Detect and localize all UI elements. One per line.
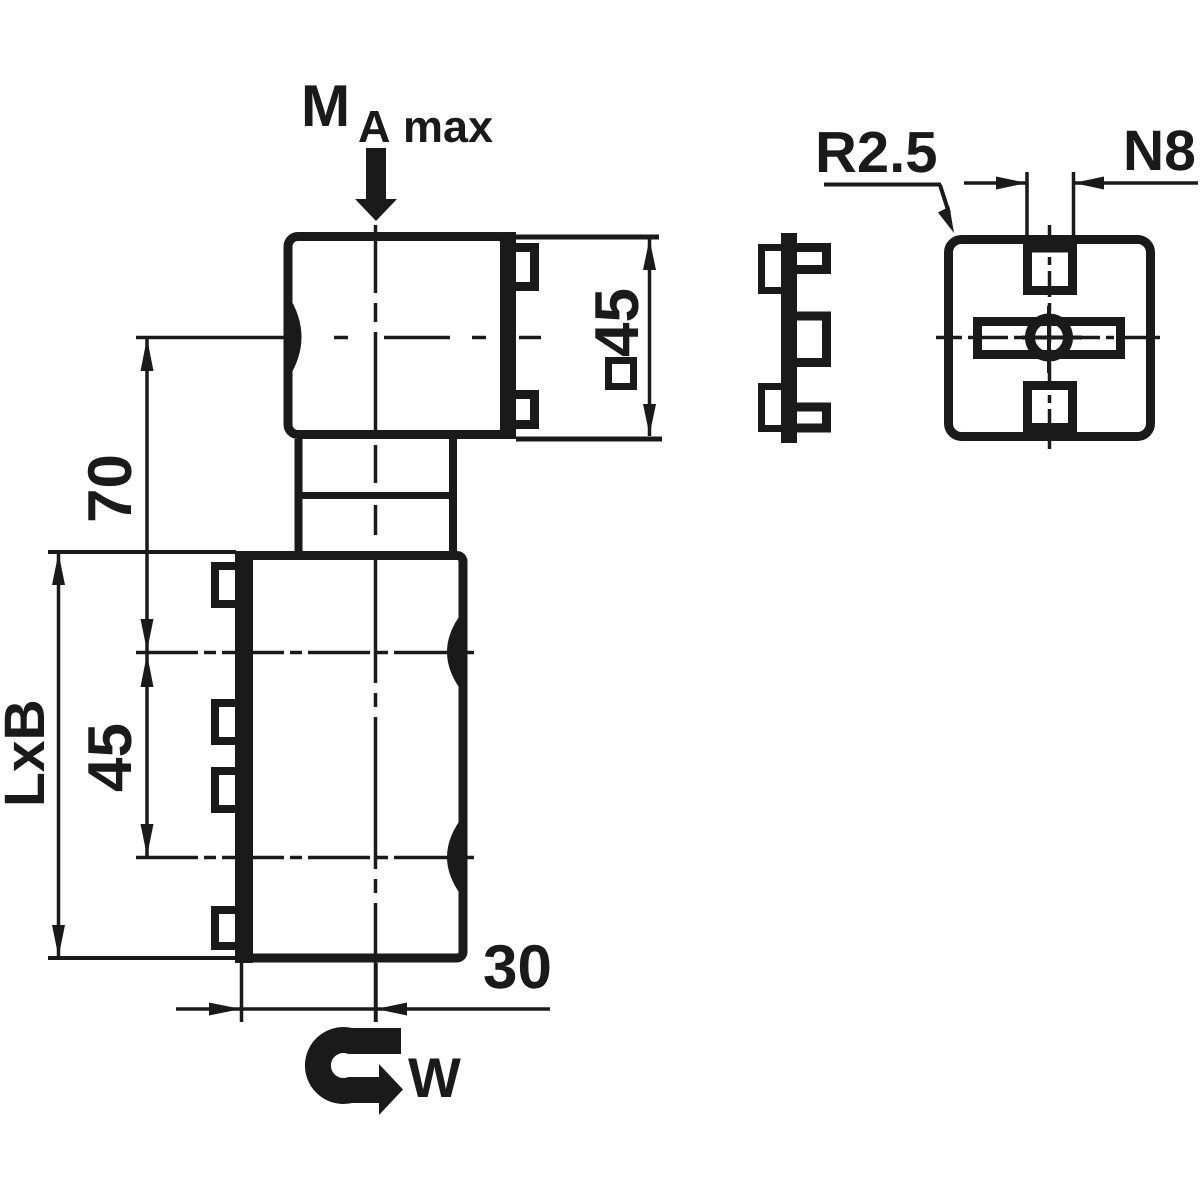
lower clamp tab 2 bbox=[215, 703, 235, 741]
arrow 70 bottom bbox=[141, 619, 154, 651]
arrow square45 bottom bbox=[643, 404, 656, 435]
lower body clamp bar bbox=[235, 551, 253, 963]
dimension N8 line left bbox=[964, 181, 1027, 185]
dimension LxB extension bottom bbox=[48, 956, 236, 960]
lower clamp tab 4 bbox=[215, 910, 235, 946]
upper body outline bbox=[288, 237, 508, 435]
arrow N8 left bbox=[996, 177, 1027, 190]
label M A max bbox=[305, 85, 493, 142]
R2.5 leader arrowhead bbox=[938, 207, 954, 234]
upper body boss arc bbox=[288, 295, 302, 379]
dim text 45 square bbox=[595, 290, 638, 356]
arrow LxB top bbox=[52, 553, 65, 585]
dim text 70 bbox=[88, 457, 132, 521]
vertical centerline main view bbox=[374, 225, 378, 1022]
arrow 70 top bbox=[141, 338, 154, 371]
dim text 45 bbox=[88, 725, 131, 791]
dimension N8 line right bbox=[1074, 181, 1199, 185]
dim text LxB bbox=[5, 702, 44, 803]
dimension square45 extension bottom bbox=[516, 437, 662, 442]
arrow N8 right bbox=[1074, 177, 1105, 190]
label W bbox=[408, 1059, 461, 1098]
front view body bbox=[949, 240, 1151, 437]
side profile square bottom bbox=[762, 387, 786, 429]
front view vertical centerline bbox=[1048, 225, 1052, 455]
square symbol bbox=[609, 361, 634, 387]
dimension N8 extension left bbox=[1025, 172, 1029, 240]
arrow square45 top bbox=[643, 239, 656, 270]
lower body horizontal centerline top bbox=[136, 651, 474, 655]
horizontal centerline upper body bbox=[136, 336, 541, 340]
dimension 30 extension right bbox=[374, 963, 378, 1022]
side profile tab bottom bbox=[793, 407, 827, 428]
arrow 45 top bbox=[141, 654, 154, 687]
front view slot top square bbox=[1028, 248, 1073, 291]
front view slot bottom square bbox=[1028, 386, 1073, 428]
lower body bore arc top bbox=[447, 610, 464, 694]
upper clamp tab top bbox=[516, 248, 535, 287]
side profile square top bbox=[762, 248, 786, 291]
side profile tab middle bbox=[793, 316, 827, 363]
dimension line square45 bbox=[648, 238, 652, 436]
dimension LxB extension top bbox=[48, 550, 236, 554]
lower body bore arc bottom bbox=[447, 815, 464, 899]
dimension line 30 bbox=[176, 1007, 550, 1011]
lower clamp tab 1 bbox=[215, 566, 235, 604]
R2.5 leader underline bbox=[824, 183, 941, 187]
neck bbox=[299, 439, 454, 555]
front view horizontal centerline bbox=[936, 336, 1166, 340]
side profile tab top bbox=[793, 248, 827, 270]
arrow 45 bottom bbox=[141, 824, 154, 856]
dimension line 70/45 bbox=[145, 338, 149, 858]
front view bore crosshair bbox=[1022, 306, 1082, 373]
upper body clamp bar bbox=[500, 232, 516, 439]
front view center bore circle bbox=[1030, 319, 1068, 357]
upper clamp tab bottom bbox=[516, 395, 535, 425]
rotation arrow W bbox=[318, 1040, 403, 1115]
side profile clamp bar bbox=[781, 233, 797, 443]
dimension line LxB bbox=[57, 552, 61, 958]
dimension 30 extension left bbox=[240, 963, 244, 1022]
lower body outline bbox=[240, 556, 463, 959]
lower body horizontal centerline bottom bbox=[136, 856, 474, 860]
dimension N8 extension right bbox=[1072, 172, 1076, 240]
dimension square45 extension top bbox=[516, 235, 659, 240]
dim text 30 bbox=[484, 945, 549, 989]
label N8 bbox=[1127, 130, 1194, 170]
front view center slot bbox=[978, 322, 1121, 355]
label R2.5 bbox=[819, 132, 936, 173]
R2.5 leader line bbox=[940, 185, 949, 213]
neck mid line bbox=[295, 492, 458, 499]
arrow LxB bottom bbox=[52, 925, 65, 957]
lower clamp tab 3 bbox=[215, 771, 235, 809]
arrow 30 right bbox=[376, 1003, 407, 1016]
arrow 30 left bbox=[209, 1003, 241, 1016]
force arrow M A max bbox=[355, 148, 397, 221]
